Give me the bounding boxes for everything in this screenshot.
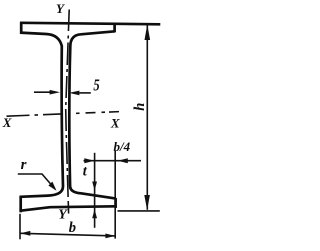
svg-text:X: X (110, 115, 120, 130)
svg-text:b: b (69, 220, 76, 236)
svg-text:h: h (132, 103, 148, 111)
svg-text:b/4: b/4 (114, 139, 131, 154)
svg-text:X: X (2, 115, 12, 130)
svg-text:5: 5 (93, 77, 99, 95)
svg-text:Y: Y (58, 207, 68, 222)
svg-text:t: t (83, 163, 88, 179)
svg-text:r: r (21, 157, 27, 173)
svg-text:Y: Y (56, 1, 65, 16)
